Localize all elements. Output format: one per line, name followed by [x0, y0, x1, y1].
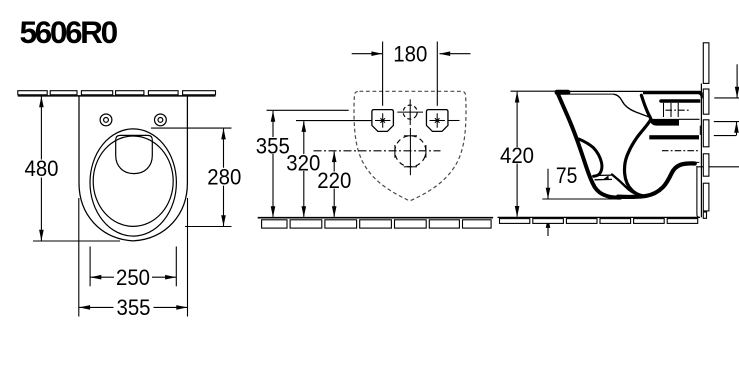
outlet centerline [662, 150, 699, 152]
front outer profile (thick section) [558, 93, 621, 198]
inlet spud lines [664, 103, 700, 120]
svg-text:250: 250 [116, 265, 150, 290]
dimension 355 (rear) [267, 110, 349, 217]
svg-text:420: 420 [500, 143, 534, 168]
mounting hole left [100, 114, 112, 126]
inlet bottom wall [650, 119, 680, 126]
bowl outer rim (ellipse) [90, 129, 176, 236]
sump bottom and back rise [618, 163, 695, 197]
rim inner hook [579, 139, 602, 176]
floor tile band (rear view) [262, 220, 492, 228]
bowl cavity front diagonal [612, 175, 641, 196]
top rear thick band [643, 91, 703, 98]
inlet pipe top wall [659, 99, 700, 103]
bowl inner rim (ellipse) [93, 136, 173, 226]
inlet centerline [666, 109, 691, 111]
svg-text:5606R0: 5606R0 [20, 14, 118, 50]
rim front cap [555, 90, 571, 95]
svg-text:75: 75 [556, 163, 578, 188]
floor line (rear view) [258, 217, 493, 219]
dimension 420 [511, 91, 558, 216]
seat top double line [557, 90, 701, 92]
rear face below outlet [696, 166, 698, 215]
bowl shelf [594, 174, 612, 176]
svg-text:355: 355 [117, 295, 151, 320]
dimension 180 [352, 53, 471, 55]
svg-text:480: 480 [25, 156, 59, 181]
svg-text:180: 180 [393, 41, 427, 66]
svg-text:320: 320 [286, 150, 320, 175]
water inlet (small dashed circle) [401, 103, 420, 122]
outlet bottom inner line [672, 162, 699, 169]
rear silhouette (dashed shield) [354, 91, 466, 200]
floor tile band (side view) [500, 219, 698, 224]
mounting hole left (rear) [372, 110, 394, 132]
dimension 355 [79, 198, 188, 317]
WC body outline (plan) [79, 96, 187, 241]
svg-text:280: 280 [207, 164, 241, 189]
hole centerline right [436, 42, 438, 106]
right-edge dimension stubs [698, 64, 739, 167]
outlet top wall [649, 135, 699, 139]
floor line (side view) [498, 216, 701, 218]
dimension 280 [151, 128, 232, 226]
hole centerline left [382, 42, 384, 106]
drain outlet (large dashed circle) [391, 131, 431, 171]
wall face line (plan) [18, 95, 216, 97]
dimension 480 [33, 97, 120, 242]
inner seat curve [614, 94, 651, 117]
75 lower arrow (pierces floor band) [547, 217, 549, 236]
wall face line (side view) [700, 84, 702, 218]
flush channel wall + bowl inner surface [625, 95, 651, 195]
svg-text:355: 355 [256, 133, 290, 158]
svg-text:220: 220 [317, 168, 351, 193]
mounting hole right [155, 114, 167, 126]
rear sliver between pipes [699, 126, 701, 135]
dimension 220 (rear) + drain centerline [314, 150, 441, 152]
right hole stub centerline [448, 120, 460, 122]
dimension 320 (rear) [296, 121, 372, 217]
wall tile band (side view) [703, 43, 709, 219]
dimension 250 [90, 247, 176, 287]
mounting hole right (rear) [426, 110, 448, 132]
wall tile band (plan) [18, 91, 216, 95]
flush tongue [116, 135, 153, 173]
